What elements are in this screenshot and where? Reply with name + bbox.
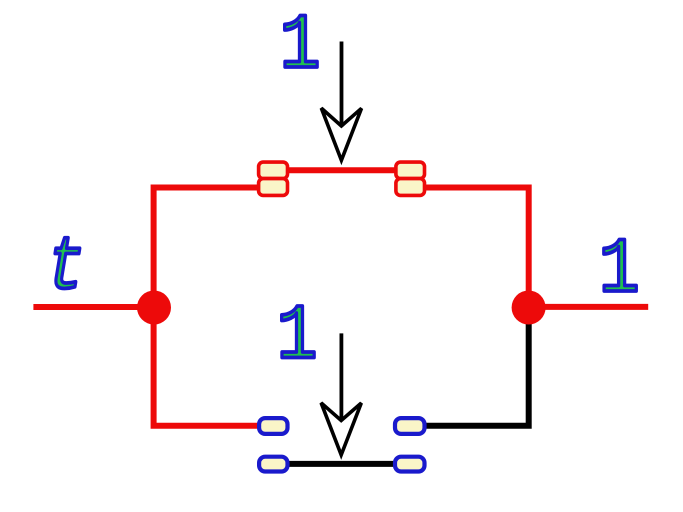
svg-text:1: 1 (277, 293, 318, 382)
svg-text:1: 1 (599, 226, 640, 315)
svg-text:1: 1 (280, 2, 321, 91)
svg-text:t: t (47, 225, 85, 311)
